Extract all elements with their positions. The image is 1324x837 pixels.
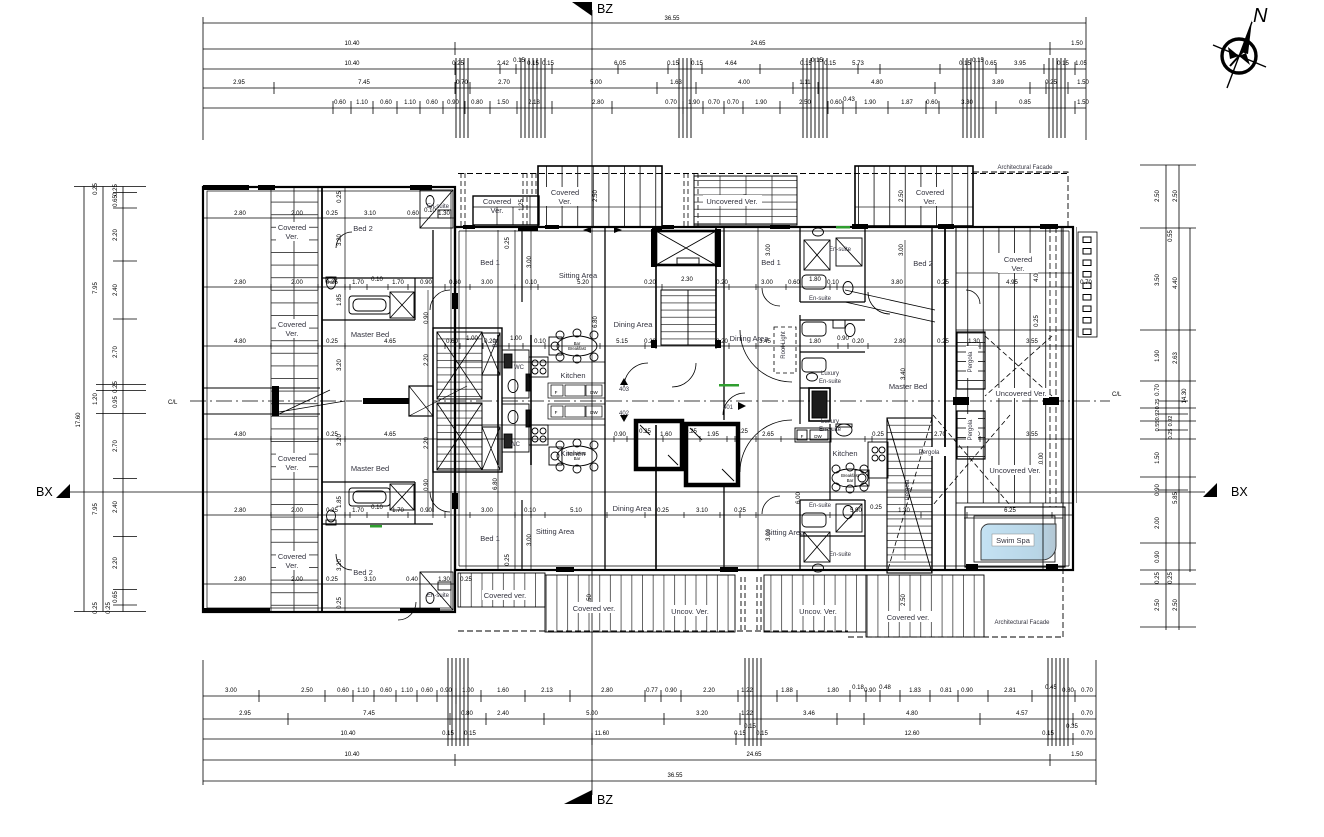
svg-text:6.25: 6.25 (1004, 508, 1016, 514)
svg-text:403: 403 (619, 387, 630, 393)
svg-text:Covered: Covered (483, 197, 511, 206)
right dimension block (1140, 165, 1196, 630)
interior horizontal dimension lines (203, 218, 1073, 584)
core kitchen upper stove+counter (529, 357, 605, 398)
svg-text:1.11: 1.11 (799, 80, 811, 86)
svg-text:2.80: 2.80 (234, 280, 246, 286)
svg-text:0.70: 0.70 (456, 80, 468, 86)
svg-text:Swim Spa: Swim Spa (996, 536, 1031, 545)
svg-text:0.25: 0.25 (113, 184, 119, 196)
diagonal braces master bed top right (845, 290, 935, 322)
row y439 labels (234, 429, 1038, 438)
svg-text:0.15: 0.15 (442, 731, 454, 737)
svg-text:14.30: 14.30 (1182, 388, 1188, 404)
svg-text:Pergola: Pergola (968, 419, 974, 440)
svg-text:0.25: 0.25 (736, 429, 748, 435)
building envelope main body (455, 227, 1073, 570)
svg-text:3.20: 3.20 (696, 711, 708, 717)
svg-text:2.30: 2.30 (681, 277, 693, 283)
svg-text:1.70: 1.70 (392, 508, 404, 514)
core WC upper (502, 350, 530, 398)
svg-text:En-suite: En-suite (427, 593, 450, 599)
svg-text:0.15: 0.15 (527, 61, 539, 67)
svg-text:2.70: 2.70 (498, 80, 510, 86)
svg-text:0.15: 0.15 (972, 58, 984, 64)
svg-text:Bed 2: Bed 2 (913, 259, 933, 268)
svg-text:Uncovered Ver.: Uncovered Ver. (989, 466, 1040, 475)
svg-text:0.55: 0.55 (1155, 421, 1161, 432)
svg-text:Covered: Covered (1004, 255, 1032, 264)
svg-text:1.50: 1.50 (1077, 100, 1089, 106)
svg-text:1.70: 1.70 (352, 280, 364, 286)
svg-text:Breakfast: Breakfast (568, 346, 587, 351)
svg-text:0.25: 0.25 (106, 602, 112, 614)
svg-text:1.00: 1.00 (466, 336, 478, 342)
top dimension block (203, 17, 1086, 140)
svg-text:2.50: 2.50 (1173, 190, 1179, 202)
svg-text:0.65: 0.65 (113, 195, 119, 207)
svg-text:0.40: 0.40 (406, 577, 418, 583)
svg-text:0.25: 0.25 (337, 597, 343, 609)
svg-text:2.20: 2.20 (424, 437, 430, 449)
svg-text:Bed 1: Bed 1 (480, 534, 500, 543)
svg-text:DW: DW (590, 390, 598, 395)
svg-text:402: 402 (619, 411, 630, 417)
svg-text:0.25: 0.25 (937, 280, 949, 286)
svg-text:0.92: 0.92 (1168, 416, 1174, 427)
svg-text:Architectural Facade: Architectural Facade (994, 620, 1050, 626)
svg-text:0.90: 0.90 (961, 688, 973, 694)
svg-text:1.30: 1.30 (438, 211, 450, 217)
svg-text:Bed 2: Bed 2 (353, 568, 373, 577)
elevator side posts (452, 229, 721, 509)
svg-text:11.60: 11.60 (595, 731, 610, 737)
svg-text:0.80: 0.80 (1062, 688, 1074, 694)
svg-text:2.50: 2.50 (301, 688, 313, 694)
svg-text:2.40: 2.40 (113, 501, 119, 513)
breakfast bar oval upper (549, 329, 598, 363)
svg-text:5.73: 5.73 (852, 61, 864, 67)
svg-text:Sitting Area: Sitting Area (766, 528, 805, 537)
svg-text:2.13: 2.13 (541, 688, 553, 694)
svg-text:BZ: BZ (597, 793, 613, 807)
svg-text:2.80: 2.80 (894, 339, 906, 345)
svg-text:0.15: 0.15 (1057, 61, 1069, 67)
svg-text:0.25: 0.25 (1034, 315, 1040, 327)
svg-text:Roof Light: Roof Light (781, 331, 787, 359)
architectural facade dashed top right (973, 172, 1068, 226)
svg-text:0.60: 0.60 (830, 100, 842, 106)
svg-text:Ver.: Ver. (286, 561, 299, 570)
svg-text:1.30: 1.30 (898, 508, 910, 514)
svg-text:En-suite: En-suite (829, 552, 852, 558)
svg-text:1.60: 1.60 (660, 432, 672, 438)
svg-text:0.70: 0.70 (1081, 688, 1093, 694)
svg-text:0.15: 0.15 (667, 61, 679, 67)
swim spa (965, 503, 1065, 570)
svg-text:Pergola: Pergola (905, 479, 911, 500)
C/L wall details left wing (203, 386, 467, 416)
svg-text:Master Bed: Master Bed (351, 464, 389, 473)
svg-text:0.25: 0.25 (337, 191, 343, 203)
svg-text:0.15: 0.15 (464, 731, 476, 737)
top tick clusters (456, 58, 1065, 138)
svg-text:0.60: 0.60 (380, 100, 392, 106)
svg-text:0.10: 0.10 (827, 280, 839, 286)
svg-text:0.70: 0.70 (665, 100, 677, 106)
svg-text:Sitting Area: Sitting Area (536, 527, 575, 536)
svg-text:4.00: 4.00 (738, 80, 750, 86)
svg-text:Pergola: Pergola (968, 351, 974, 372)
svg-text:0.25: 0.25 (326, 577, 338, 583)
svg-text:1.10: 1.10 (401, 688, 413, 694)
svg-text:En-suite: En-suite (427, 204, 450, 210)
svg-text:2.00: 2.00 (291, 280, 303, 286)
interior vertical walls (322, 187, 1063, 612)
svg-text:5.20: 5.20 (577, 280, 589, 286)
svg-text:Luxury: Luxury (821, 419, 839, 425)
svg-text:2.95: 2.95 (239, 711, 251, 717)
facade dashes top centre (684, 173, 698, 226)
svg-text:0.90: 0.90 (424, 479, 430, 491)
svg-text:0.25: 0.25 (657, 508, 669, 514)
svg-text:Uncov. Ver.: Uncov. Ver. (799, 607, 837, 616)
svg-text:0.81: 0.81 (940, 688, 952, 694)
svg-text:3.00: 3.00 (761, 280, 773, 286)
pergola ladder lower right (957, 411, 985, 459)
svg-text:0.70: 0.70 (1081, 711, 1093, 717)
svg-text:0.70: 0.70 (1155, 384, 1161, 396)
bottom veranda band s4 covered (866, 575, 984, 637)
svg-text:3.00: 3.00 (481, 280, 493, 286)
svg-text:6.05: 6.05 (614, 61, 626, 67)
svg-text:0.95: 0.95 (113, 396, 119, 408)
left dimension block (74, 187, 146, 612)
svg-text:0.15: 0.15 (1042, 731, 1054, 737)
svg-text:2.18: 2.18 (528, 100, 540, 106)
svg-text:2.40: 2.40 (113, 284, 119, 296)
svg-text:5.15: 5.15 (616, 339, 628, 345)
inner double-wall lines (207, 191, 1069, 608)
svg-text:N: N (1253, 5, 1268, 27)
svg-text:Kitchen: Kitchen (832, 449, 857, 458)
svg-text:1.05: 1.05 (1075, 61, 1087, 67)
svg-text:2.80: 2.80 (234, 508, 246, 514)
svg-text:0.60: 0.60 (334, 100, 346, 106)
svg-text:7.45: 7.45 (363, 711, 375, 717)
svg-text:0.15: 0.15 (811, 58, 823, 64)
top covered veranda hatched (right) (855, 166, 973, 226)
svg-text:0.25: 0.25 (326, 339, 338, 345)
svg-text:4.95: 4.95 (1006, 280, 1018, 286)
svg-text:0.60: 0.60 (449, 280, 461, 286)
svg-text:7.45: 7.45 (358, 80, 370, 86)
svg-text:0.92: 0.92 (1155, 410, 1161, 421)
svg-text:0.90: 0.90 (420, 508, 432, 514)
svg-text:F: F (555, 410, 558, 415)
door arcs (336, 232, 980, 620)
svg-text:En-suite: En-suite (829, 247, 852, 253)
svg-text:4.65: 4.65 (384, 432, 396, 438)
svg-text:0.25: 0.25 (505, 554, 511, 566)
svg-text:3.95: 3.95 (1014, 61, 1026, 67)
svg-text:F: F (555, 390, 558, 395)
breakfast bar oval lower (549, 439, 598, 473)
svg-text:1.90: 1.90 (755, 100, 767, 106)
right dimension labels (rotated) (1155, 190, 1188, 611)
svg-text:0.15: 0.15 (513, 58, 525, 64)
svg-text:10.40: 10.40 (344, 61, 360, 67)
svg-text:Ver.: Ver. (1012, 264, 1025, 273)
svg-text:4.57: 4.57 (1016, 711, 1028, 717)
svg-text:0.10: 0.10 (524, 508, 536, 514)
svg-text:6.80: 6.80 (593, 316, 599, 328)
svg-text:0.10: 0.10 (371, 277, 383, 283)
svg-text:0.25: 0.25 (872, 432, 884, 438)
svg-text:3.00: 3.00 (766, 244, 772, 256)
svg-text:3.10: 3.10 (696, 508, 708, 514)
svg-text:0.20: 0.20 (644, 280, 656, 286)
svg-text:0.15: 0.15 (542, 61, 554, 67)
svg-text:Ver.: Ver. (559, 197, 572, 206)
svg-text:0.90: 0.90 (440, 688, 452, 694)
svg-text:3.55: 3.55 (1026, 339, 1038, 345)
svg-text:1.10: 1.10 (356, 100, 368, 106)
top dimension labels (233, 16, 1089, 106)
svg-text:3.40: 3.40 (901, 368, 907, 380)
svg-text:2.50: 2.50 (1155, 190, 1161, 202)
elevator shaft (656, 231, 716, 265)
svg-text:0.60: 0.60 (337, 688, 349, 694)
svg-text:0.90: 0.90 (420, 280, 432, 286)
svg-text:3.20: 3.20 (337, 434, 343, 446)
svg-text:Covered: Covered (278, 454, 306, 463)
svg-text:1.88: 1.88 (781, 688, 793, 694)
svg-text:Uncovered Ver.: Uncovered Ver. (995, 389, 1046, 398)
svg-text:2.70: 2.70 (113, 346, 119, 358)
bottom veranda gap dashes (741, 577, 761, 630)
svg-text:Master Bed: Master Bed (889, 382, 927, 391)
svg-text:1.00: 1.00 (510, 336, 522, 342)
svg-text:0.25: 0.25 (639, 429, 651, 435)
svg-text:0.25: 0.25 (1045, 80, 1057, 86)
balcony railing squares right edge (1078, 232, 1097, 337)
top covered veranda small (left-centre) (473, 196, 539, 225)
svg-text:24.65: 24.65 (746, 752, 762, 758)
svg-text:En-suite: En-suite (809, 296, 832, 302)
room labels (278, 165, 1053, 626)
svg-text:1.80: 1.80 (827, 688, 839, 694)
bottom dimension labels (225, 685, 1093, 779)
svg-text:Ver.: Ver. (924, 197, 937, 206)
svg-text:BZ: BZ (597, 2, 613, 16)
svg-text:2.00: 2.00 (1155, 517, 1161, 529)
C/L wall details right wing (953, 397, 1059, 405)
svg-text:1.50: 1.50 (1071, 41, 1083, 47)
svg-text:0.90: 0.90 (1155, 551, 1161, 563)
svg-text:24.65: 24.65 (750, 41, 766, 47)
svg-text:5.85: 5.85 (1173, 492, 1179, 504)
svg-text:0.15: 0.15 (734, 731, 746, 737)
svg-text:En-suite: En-suite (819, 427, 842, 433)
white label backgrounds over hatch (276, 187, 1049, 622)
svg-text:0.25: 0.25 (1155, 399, 1161, 410)
svg-text:Ver.: Ver. (286, 463, 299, 472)
svg-text:Bed 1: Bed 1 (761, 258, 781, 267)
svg-text:1.83: 1.83 (909, 688, 921, 694)
svg-text:0.90: 0.90 (1155, 484, 1161, 496)
svg-text:Dining Area: Dining Area (613, 504, 653, 513)
svg-text:0.20: 0.20 (716, 339, 728, 345)
north compass (1213, 20, 1266, 88)
uncovered veranda dashed X upper (985, 336, 1052, 396)
svg-text:0.80: 0.80 (471, 100, 483, 106)
svg-text:0.15: 0.15 (959, 61, 971, 67)
svg-text:3.10: 3.10 (364, 577, 376, 583)
right unit luxury en-suite + dark unit (802, 358, 852, 436)
left core staircase upper (437, 332, 500, 399)
svg-text:6.00: 6.00 (796, 492, 802, 504)
svg-text:12.60: 12.60 (904, 731, 920, 737)
svg-text:1.85: 1.85 (337, 294, 343, 306)
breakfast bar tiny labels (568, 341, 860, 483)
svg-text:0.35: 0.35 (1066, 724, 1078, 730)
svg-text:1.22: 1.22 (741, 688, 753, 694)
svg-text:7.95: 7.95 (93, 503, 99, 515)
svg-text:3.00: 3.00 (481, 508, 493, 514)
svg-text:0.10: 0.10 (525, 280, 537, 286)
svg-text:0.25: 0.25 (113, 381, 119, 393)
svg-text:0.25: 0.25 (685, 429, 697, 435)
row y584 labels (234, 577, 472, 583)
svg-text:0.60: 0.60 (426, 100, 438, 106)
svg-text:0.25: 0.25 (870, 505, 882, 511)
svg-text:En-suite: En-suite (819, 379, 842, 385)
svg-text:0.60: 0.60 (407, 211, 419, 217)
svg-text:Covered ver.: Covered ver. (887, 613, 930, 622)
svg-text:Uncov. Ver.: Uncov. Ver. (671, 607, 709, 616)
left core staircase lower (437, 403, 500, 470)
svg-text:0.20: 0.20 (852, 339, 864, 345)
svg-text:DW: DW (814, 434, 822, 439)
svg-text:2.95: 2.95 (233, 80, 245, 86)
svg-text:1.70: 1.70 (392, 280, 404, 286)
svg-text:2.00: 2.00 (291, 577, 303, 583)
svg-text:10.40: 10.40 (344, 41, 360, 47)
svg-text:1.50: 1.50 (1077, 80, 1089, 86)
svg-text:Pergola: Pergola (919, 450, 940, 456)
svg-text:1.50: 1.50 (1155, 452, 1161, 464)
svg-text:Covered ver.: Covered ver. (573, 604, 616, 613)
bottom veranda band s1 covered (458, 573, 545, 607)
svg-text:4.40: 4.40 (1173, 277, 1179, 289)
void shaft black box 1 (636, 421, 682, 469)
svg-text:0.70: 0.70 (727, 100, 739, 106)
svg-text:BX: BX (1231, 485, 1248, 499)
bottom dimension block (203, 660, 1096, 785)
svg-text:1.90: 1.90 (688, 100, 700, 106)
svg-text:0.90: 0.90 (447, 100, 459, 106)
svg-text:36.55: 36.55 (664, 16, 680, 22)
row y218 labels (234, 208, 450, 217)
svg-text:Master Bed: Master Bed (351, 330, 389, 339)
svg-text:1.90: 1.90 (1155, 350, 1161, 362)
svg-text:1.80: 1.80 (809, 277, 821, 283)
left unit en-suite fixtures upper (326, 277, 414, 318)
svg-text:0.25: 0.25 (326, 211, 338, 217)
svg-text:0.25: 0.25 (1155, 572, 1161, 584)
svg-text:3.00: 3.00 (899, 244, 905, 256)
right unit WC middle (802, 320, 855, 337)
svg-text:WC: WC (510, 442, 521, 448)
svg-text:2.40: 2.40 (497, 711, 509, 717)
svg-text:0.43: 0.43 (843, 97, 855, 103)
svg-text:10.40: 10.40 (340, 731, 356, 737)
svg-text:1.90: 1.90 (864, 100, 876, 106)
svg-text:17.60: 17.60 (76, 412, 82, 428)
svg-text:Covered: Covered (278, 320, 306, 329)
svg-text:0.45: 0.45 (1045, 685, 1057, 691)
svg-text:1.10: 1.10 (404, 100, 416, 106)
svg-text:3.30: 3.30 (961, 100, 973, 106)
core kitchen lower stove+counter (529, 404, 605, 445)
svg-text:1.63: 1.63 (670, 80, 682, 86)
svg-text:3.55: 3.55 (1026, 432, 1038, 438)
svg-text:0.70: 0.70 (1081, 731, 1093, 737)
svg-text:10.40: 10.40 (344, 752, 360, 758)
svg-text:0.25: 0.25 (93, 183, 99, 195)
svg-text:0.60: 0.60 (421, 688, 433, 694)
svg-text:Bar: Bar (574, 456, 581, 461)
svg-text:2.50: 2.50 (799, 100, 811, 106)
svg-text:2.20: 2.20 (703, 688, 715, 694)
wall swing arrows top (583, 227, 622, 233)
svg-text:3.10: 3.10 (364, 211, 376, 217)
svg-text:Covered: Covered (278, 223, 306, 232)
svg-text:2.70: 2.70 (113, 440, 119, 452)
svg-text:0.85: 0.85 (1019, 100, 1031, 106)
svg-text:0.15: 0.15 (756, 731, 768, 737)
facade dashes top left (461, 173, 536, 227)
svg-text:2.42: 2.42 (497, 61, 509, 67)
svg-text:1.85: 1.85 (337, 496, 343, 508)
svg-text:0.25: 0.25 (452, 61, 464, 67)
svg-text:0.20: 0.20 (716, 280, 728, 286)
svg-text:DW: DW (590, 410, 598, 415)
right unit bath cluster lower (mirror) (802, 504, 862, 572)
svg-text:Ver.: Ver. (286, 232, 299, 241)
svg-text:Dining Area: Dining Area (730, 334, 770, 343)
building envelope left wing (203, 187, 455, 612)
svg-text:1.50: 1.50 (1071, 752, 1083, 758)
svg-text:3.00: 3.00 (225, 688, 237, 694)
svg-text:1.22: 1.22 (741, 711, 753, 717)
svg-text:BX: BX (36, 485, 53, 499)
svg-text:En-suite: En-suite (809, 503, 832, 509)
veranda ladder strip left wing (271, 187, 318, 612)
svg-text:Covered ver.: Covered ver. (484, 591, 527, 600)
svg-text:36.55: 36.55 (667, 773, 683, 779)
svg-text:3.20: 3.20 (337, 359, 343, 371)
svg-text:0.60: 0.60 (788, 280, 800, 286)
pergola ladder upper right (957, 332, 985, 389)
svg-text:Dining Area: Dining Area (614, 320, 654, 329)
svg-text:2.65: 2.65 (762, 432, 774, 438)
svg-text:1.00: 1.00 (462, 688, 474, 694)
svg-text:Ver.: Ver. (286, 329, 299, 338)
svg-text:Covered: Covered (916, 188, 944, 197)
svg-text:Sitting Area: Sitting Area (559, 271, 598, 280)
